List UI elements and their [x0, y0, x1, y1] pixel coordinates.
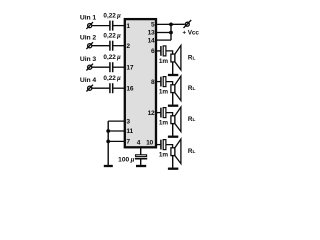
junction pin11/ground bus — [106, 129, 110, 133]
wire IC pin 11 to ground bus — [108, 130, 124, 132]
wire pin 14 to Vcc bus — [156, 39, 171, 41]
speaker RL1 — [171, 45, 181, 70]
svg-text:Uin 3: Uin 3 — [80, 56, 96, 63]
wire speaker 3 to ground — [172, 124, 174, 136]
wire C3 to IC pin 17 — [113, 66, 124, 68]
wire IC pin 12 to C7 — [156, 112, 160, 114]
svg-text:100µ: 100µ — [118, 156, 134, 163]
svg-text:16: 16 — [126, 85, 133, 92]
svg-text:8: 8 — [151, 79, 155, 86]
ground under speaker 3 — [168, 136, 178, 138]
wire C4 to IC pin 16 — [113, 87, 124, 89]
capacitor C8 1m electrolytic — [161, 140, 166, 150]
wire IC pin 4 to C9 — [140, 148, 142, 155]
svg-text:10: 10 — [146, 139, 153, 146]
wire C6 to speaker 2 — [167, 82, 173, 85]
wire Uin4 terminal to C4 — [92, 87, 110, 89]
wire pin 5 to +Vcc terminal — [156, 23, 184, 25]
svg-text:0,22µ: 0,22µ — [103, 33, 121, 40]
svg-text:1m: 1m — [159, 120, 168, 127]
svg-text:RL: RL — [188, 85, 196, 92]
ground under speaker 4 — [168, 168, 178, 170]
IC U1 quad power amplifier body — [125, 19, 156, 147]
wire IC pin 7 to ground bus — [108, 140, 124, 142]
speaker RL2 — [171, 76, 181, 101]
capacitor C5 1m electrolytic — [161, 46, 166, 56]
wire Uin3 terminal to C3 — [92, 66, 110, 68]
ground under speaker 1 — [168, 74, 178, 76]
svg-text:1: 1 — [126, 23, 130, 30]
capacitor C3 0,22u — [110, 62, 113, 72]
speaker RL3 — [171, 107, 181, 132]
wire Uin2 terminal to C2 — [92, 45, 110, 47]
wire Uin1 terminal to C1 — [92, 25, 110, 27]
wire C7 to speaker 3 — [167, 113, 173, 116]
speaker RL4 — [171, 139, 181, 164]
capacitor C7 1m electrolytic — [161, 108, 166, 118]
svg-text:RL: RL — [188, 148, 196, 155]
ground for C9 — [136, 165, 146, 167]
junction pin13/bus — [169, 31, 173, 35]
wire C2 to IC pin 2 — [113, 45, 124, 47]
+Vcc terminal — [184, 20, 192, 28]
wire IC pin 8 to C6 — [156, 81, 160, 83]
wire speaker 2 to ground — [172, 93, 174, 105]
svg-text:7: 7 — [126, 139, 130, 146]
svg-text:+ Vcc: + Vcc — [182, 29, 199, 36]
svg-text:6: 6 — [151, 48, 155, 55]
svg-text:RL: RL — [188, 116, 196, 123]
wire pin 13 to Vcc bus — [156, 32, 171, 34]
wire IC pin 10 to C8 — [156, 144, 160, 146]
wire C8 to speaker 4 — [167, 145, 173, 148]
svg-text:RL: RL — [188, 54, 196, 61]
wire Vcc bus vertical — [170, 24, 172, 40]
wire C1 to IC pin 1 — [113, 25, 124, 27]
ground for pins 3,11,7 — [104, 165, 113, 167]
svg-text:Uin 4: Uin 4 — [80, 77, 96, 84]
junction pin5/bus — [169, 23, 173, 27]
input terminal Uin 1 — [86, 22, 93, 29]
svg-text:Uin 2: Uin 2 — [80, 34, 96, 41]
capacitor C4 0,22u — [110, 83, 113, 93]
wire speaker 1 to ground — [172, 62, 174, 74]
input terminal Uin 2 — [86, 42, 93, 49]
svg-text:12: 12 — [148, 110, 155, 117]
svg-text:1m: 1m — [159, 152, 168, 159]
svg-text:4: 4 — [137, 139, 141, 146]
svg-text:0,22µ: 0,22µ — [103, 75, 121, 82]
capacitor C9 100u — [135, 155, 147, 159]
ground under speaker 2 — [168, 105, 178, 107]
capacitor C2 0,22u — [110, 41, 113, 51]
svg-text:3: 3 — [126, 118, 130, 125]
input terminal Uin 3 — [86, 64, 93, 71]
wire C5 to speaker 1 — [167, 51, 173, 54]
wire speaker 4 to ground — [172, 156, 174, 168]
svg-text:1m: 1m — [159, 89, 168, 96]
svg-text:0,22µ: 0,22µ — [103, 13, 121, 20]
svg-text:1m: 1m — [159, 58, 168, 65]
svg-text:11: 11 — [126, 128, 133, 135]
wire IC pin 3 to ground bus — [108, 120, 124, 122]
wire C9 to ground — [140, 160, 142, 165]
wire ground bus vertical — [107, 121, 109, 165]
svg-text:13: 13 — [148, 30, 155, 37]
svg-text:2: 2 — [126, 43, 130, 50]
svg-text:14: 14 — [148, 37, 155, 44]
svg-text:5: 5 — [151, 22, 155, 29]
junction pin7/ground bus — [106, 140, 110, 144]
svg-text:0,22µ: 0,22µ — [103, 54, 121, 61]
svg-text:17: 17 — [126, 64, 133, 71]
svg-text:Uin 1: Uin 1 — [80, 14, 96, 21]
capacitor C1 0,22u — [110, 21, 113, 31]
wire IC pin 6 to C5 — [156, 50, 160, 52]
input terminal Uin 4 — [86, 85, 93, 92]
capacitor C6 1m electrolytic — [161, 77, 166, 87]
